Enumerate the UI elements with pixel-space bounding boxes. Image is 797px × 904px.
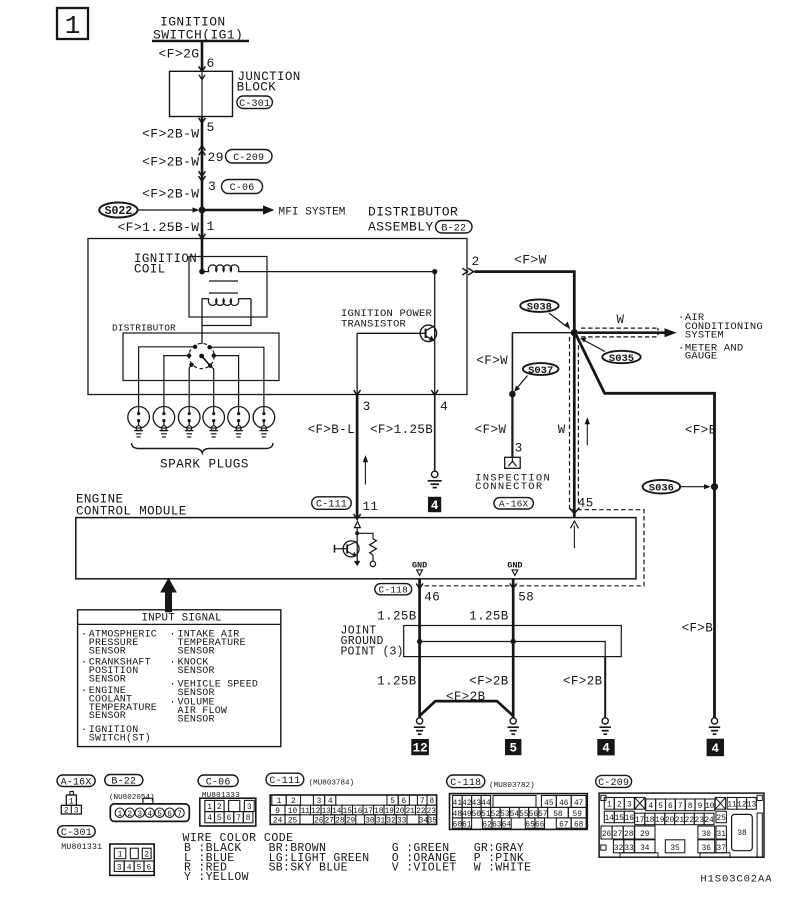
svg-text:38: 38 (737, 830, 747, 838)
svg-text:S037: S037 (528, 365, 553, 377)
ground 12 (417, 718, 423, 724)
svg-text:6: 6 (167, 811, 172, 819)
svg-text:(MU803784): (MU803784) (309, 780, 355, 788)
svg-text:SENSOR: SENSOR (89, 711, 126, 722)
coil primary winding (202, 271, 209, 273)
spark plug 2 with ground (153, 407, 175, 429)
GND triangle at pin 46 (417, 570, 423, 576)
wire rotor to spark plug 5 (214, 356, 239, 407)
svg-text:15: 15 (615, 815, 625, 823)
node coil primary input dot (199, 269, 205, 275)
inspection connector symbol (505, 457, 521, 468)
svg-text:3: 3 (247, 803, 252, 812)
pin 6 arrow into junction block (199, 66, 206, 71)
svg-text:58: 58 (518, 591, 534, 605)
svg-text:W :WHITE: W :WHITE (474, 861, 532, 874)
wire joint ground to ground 4 (604, 657, 606, 718)
svg-text:C-301: C-301 (239, 99, 270, 110)
spark plug 6 with ground (253, 407, 275, 429)
input signal box (78, 610, 281, 747)
node S036 junction dot (711, 483, 718, 490)
connector label C-301 (237, 96, 273, 109)
svg-text:1: 1 (118, 851, 123, 860)
svg-text:29: 29 (640, 831, 650, 839)
svg-text:26: 26 (314, 818, 324, 826)
svg-text:2: 2 (144, 851, 149, 860)
ECM internal arrow at pin 45 (573, 526, 575, 549)
connector label C-118 inline (375, 584, 412, 595)
svg-text:1.25B: 1.25B (377, 610, 417, 624)
splice S037 (523, 363, 559, 375)
connector label B-22 bottom (105, 775, 143, 786)
ground ref 5 black box (505, 739, 521, 755)
svg-text:28: 28 (624, 831, 634, 839)
svg-text:33: 33 (397, 818, 407, 826)
svg-text:42: 42 (462, 800, 472, 808)
svg-text:<F>2B: <F>2B (563, 675, 603, 689)
svg-text:7: 7 (177, 811, 182, 819)
svg-text:66: 66 (535, 821, 545, 829)
dashed W output box (581, 327, 658, 329)
wire S038 to inspection connector branch (512, 332, 574, 334)
wire pin 3 to ECM pin 11 (356, 395, 359, 518)
wire ECM pin 58 to ground 5 (512, 579, 515, 718)
spark plug 3 with ground (178, 407, 200, 429)
svg-text:26: 26 (602, 831, 612, 839)
connector label C-111 inline (312, 497, 352, 510)
svg-text:SB:SKY BLUE: SB:SKY BLUE (269, 861, 348, 874)
S038 pointer arrow (549, 313, 567, 327)
svg-text:63: 63 (492, 821, 502, 829)
svg-text:B-22: B-22 (441, 223, 466, 234)
connector label A-16X (57, 775, 95, 787)
connector label C-111 bottom (266, 773, 304, 786)
svg-text:33: 33 (624, 845, 634, 853)
svg-text:4: 4 (602, 742, 610, 756)
svg-text:30: 30 (365, 818, 375, 826)
svg-text:C-209: C-209 (598, 778, 629, 789)
svg-text:45: 45 (544, 800, 554, 808)
wire W to air conditioning arrow (578, 331, 666, 334)
svg-text:68: 68 (574, 821, 584, 829)
connector label C-06 bottom (198, 775, 238, 787)
wire S038 node to right branch diagonal (576, 334, 715, 718)
node S037 junction dot (509, 391, 516, 398)
svg-text:32: 32 (386, 818, 396, 826)
spark plug 1 with ground (128, 407, 150, 429)
connector C-209 pinout (599, 793, 764, 857)
wire coil secondary to rotor (201, 299, 203, 344)
ground 4 middle (602, 718, 608, 724)
ECM internal transistor Q2 (356, 533, 358, 561)
svg-text:5: 5 (157, 811, 162, 819)
svg-text:25: 25 (717, 815, 727, 823)
svg-text:29: 29 (208, 150, 224, 165)
spark plugs brace (132, 443, 274, 453)
svg-text:·: · (81, 686, 87, 697)
svg-text:GAUGE: GAUGE (685, 351, 718, 363)
svg-text:32: 32 (614, 845, 624, 853)
svg-text:5: 5 (509, 742, 517, 756)
S035 pointer arrow (585, 341, 606, 352)
wire pin1 to ignition coil (201, 239, 204, 272)
svg-text:25: 25 (288, 818, 298, 826)
svg-text:8: 8 (688, 803, 693, 811)
svg-text:47: 47 (574, 800, 584, 808)
svg-text:4: 4 (648, 803, 653, 811)
svg-text:ASSEMBLY: ASSEMBLY (368, 220, 434, 235)
svg-text:50: 50 (472, 811, 482, 819)
svg-text:3: 3 (74, 806, 79, 815)
svg-text:SENSOR: SENSOR (89, 646, 126, 657)
joint ground point box (404, 626, 622, 657)
svg-text:6: 6 (146, 863, 151, 872)
pin 45 connector chevron (569, 508, 579, 514)
svg-text:DISTRIBUTOR: DISTRIBUTOR (368, 205, 458, 220)
svg-text:<F>2B-W: <F>2B-W (142, 127, 199, 142)
svg-text:C-118: C-118 (378, 585, 408, 596)
connector label C-209 bottom (596, 775, 632, 787)
joint ground internal bus (420, 642, 606, 657)
pin 1 arrow into assembly (199, 234, 206, 239)
svg-text:2: 2 (64, 806, 69, 815)
svg-text:CONNECTOR: CONNECTOR (475, 481, 543, 493)
connector C-209 inline chevrons (199, 145, 206, 150)
svg-text:24: 24 (704, 817, 714, 825)
node joint ground dot 46 (417, 639, 422, 644)
svg-text:37: 37 (717, 845, 727, 853)
svg-text:11: 11 (363, 500, 379, 514)
wire rotor to spark plug 6 (210, 347, 264, 406)
svg-text:SENSOR: SENSOR (178, 646, 215, 657)
wire S037 to inspection connector (511, 394, 513, 457)
svg-text:S022: S022 (105, 205, 133, 218)
svg-text:6: 6 (668, 803, 673, 811)
connector label B-22 (436, 221, 473, 234)
wire ignition switch to junction block (201, 42, 204, 71)
svg-text:<F>2B: <F>2B (469, 675, 509, 689)
svg-text:60: 60 (453, 821, 463, 829)
svg-text:<F>W: <F>W (475, 423, 507, 437)
svg-text:4: 4 (440, 399, 448, 414)
svg-text:SENSOR: SENSOR (178, 714, 215, 725)
wire rotor to spark plug 2 (164, 356, 189, 407)
ground ref 4 middle black box (597, 739, 614, 755)
svg-text:62: 62 (483, 821, 493, 829)
ECM internal terminal circle (370, 561, 375, 566)
svg-text:<F>2B-W: <F>2B-W (142, 187, 199, 202)
svg-text:<F>B: <F>B (682, 622, 714, 636)
svg-text:·: · (170, 698, 176, 709)
svg-text:3: 3 (117, 863, 122, 872)
svg-text:·: · (678, 312, 685, 324)
svg-text:W: W (617, 313, 625, 327)
svg-text:7: 7 (236, 814, 241, 823)
svg-text:H1S03C02AA: H1S03C02AA (700, 874, 772, 886)
svg-text:1: 1 (607, 802, 612, 810)
svg-text:29: 29 (346, 818, 356, 826)
svg-text:18: 18 (645, 817, 655, 825)
S022 pointer arrow (138, 209, 195, 211)
svg-text:<F>W: <F>W (476, 354, 508, 368)
svg-text:61: 61 (462, 821, 472, 829)
distributor rotor circle (189, 343, 214, 368)
svg-text:1: 1 (207, 803, 212, 812)
S037 pointer arrow (517, 376, 528, 389)
page number box 1 (57, 8, 88, 39)
svg-text:(MU803782): (MU803782) (489, 782, 535, 790)
svg-text:·: · (678, 342, 685, 354)
wire pin2 to S038 node (475, 272, 575, 333)
connector C-06 pinout (200, 798, 256, 826)
wire 2/W down to ECM pin 45 (573, 333, 576, 518)
spark plug 5 with ground (228, 407, 250, 429)
dashed harness outline around ECM (419, 510, 645, 586)
svg-text:B-22: B-22 (111, 777, 136, 788)
svg-text:7: 7 (678, 803, 683, 811)
wire rotor to spark plug 3 (189, 365, 191, 407)
connector C-118 pinout (450, 794, 588, 830)
svg-text:4: 4 (127, 863, 132, 872)
svg-text:<F>1.25B: <F>1.25B (370, 423, 433, 437)
svg-text:11: 11 (301, 808, 311, 816)
svg-text:4: 4 (431, 499, 439, 513)
svg-text:GND: GND (412, 560, 427, 570)
S036 pointer arrow (680, 486, 706, 488)
svg-text:BLOCK: BLOCK (237, 81, 277, 95)
GND triangle at pin 58 (512, 570, 518, 576)
svg-text:C-06: C-06 (206, 777, 231, 788)
wire collector drop (434, 272, 436, 395)
ECM internal resistor R (357, 533, 373, 539)
svg-text:CONTROL MODULE: CONTROL MODULE (76, 505, 187, 519)
node joint ground dot 58 (511, 639, 516, 644)
svg-text:17: 17 (635, 817, 645, 825)
ground ref 4 right black box (707, 739, 724, 757)
svg-text:46: 46 (559, 800, 569, 808)
svg-text:31: 31 (717, 831, 727, 839)
ECM internal node dot (356, 528, 358, 534)
svg-text:S035: S035 (609, 353, 634, 365)
connector label C-06 inline (222, 180, 263, 194)
svg-text:30: 30 (702, 831, 712, 839)
svg-text:·: · (170, 679, 176, 690)
svg-text:19: 19 (655, 817, 665, 825)
connector label C-118 bottom (447, 775, 485, 788)
pin 11 connector chevron (354, 514, 361, 520)
svg-text:31: 31 (376, 818, 386, 826)
wire rotor to spark plug 1 (139, 347, 196, 407)
svg-text:·: · (170, 658, 176, 669)
wire ECM pin 46 to ground 12 (418, 579, 421, 718)
spark plug 4 with ground (203, 407, 225, 429)
current arrow up beside wire 45 (586, 422, 588, 446)
ground 5 (510, 718, 516, 724)
svg-text:21: 21 (675, 817, 685, 825)
ground ref 4 black box (428, 497, 441, 512)
svg-text:C-118: C-118 (450, 778, 481, 789)
svg-text:12: 12 (413, 742, 428, 756)
svg-text:C-301: C-301 (61, 828, 92, 839)
svg-text:·: · (81, 658, 87, 669)
svg-text:35: 35 (428, 818, 438, 826)
svg-text:<F>1.25B-W: <F>1.25B-W (117, 220, 199, 235)
ground ref 12 black box (411, 739, 429, 755)
svg-text:43: 43 (472, 800, 482, 808)
svg-text:TRANSISTOR: TRANSISTOR (341, 319, 407, 331)
svg-text:13: 13 (747, 802, 757, 810)
svg-text:2: 2 (217, 803, 222, 812)
svg-text:3: 3 (137, 811, 142, 819)
svg-text:A-16X: A-16X (61, 777, 92, 788)
wire rotor to spark plug 4 (210, 366, 214, 407)
svg-text:SPARK PLUGS: SPARK PLUGS (160, 457, 249, 472)
svg-text:1.25B: 1.25B (377, 675, 417, 689)
svg-text:16: 16 (625, 815, 635, 823)
splice S035 (602, 351, 640, 363)
svg-text:6: 6 (226, 814, 231, 823)
svg-text:14: 14 (605, 815, 615, 823)
svg-text:9: 9 (698, 803, 703, 811)
svg-text:22: 22 (685, 817, 695, 825)
rotor center dot (199, 354, 204, 359)
svg-text:3: 3 (627, 802, 632, 810)
svg-text:<F>W: <F>W (514, 253, 547, 268)
pin 5 arrow out of junction block (199, 118, 206, 123)
pin 58 connector chevron (510, 583, 517, 588)
svg-text:11: 11 (727, 802, 737, 810)
wire pin 4 to ground (434, 395, 436, 472)
svg-text:SENSOR: SENSOR (178, 666, 215, 677)
svg-text:24: 24 (273, 818, 283, 826)
svg-text:C-111: C-111 (316, 500, 347, 511)
node S022 junction dot (199, 207, 206, 214)
svg-text:1: 1 (117, 811, 122, 819)
svg-text:20: 20 (665, 817, 675, 825)
svg-text:SWITCH(ST): SWITCH(ST) (89, 732, 151, 744)
rotor arm (202, 356, 211, 366)
svg-text:6: 6 (207, 56, 215, 71)
svg-text:Y :YELLOW: Y :YELLOW (184, 871, 249, 884)
dashed harness outline left pair (569, 337, 571, 509)
svg-text:·: · (81, 725, 87, 736)
svg-text:<F>B-L: <F>B-L (308, 423, 355, 437)
svg-text:65: 65 (525, 821, 535, 829)
ground for pin 4 wire (432, 471, 438, 477)
svg-text:8: 8 (246, 814, 251, 823)
svg-text:SYSTEM: SYSTEM (685, 330, 724, 342)
svg-text:4: 4 (207, 814, 212, 823)
svg-text:S036: S036 (649, 482, 674, 494)
svg-text:<F>2B-W: <F>2B-W (142, 155, 199, 170)
node S038 junction dot (571, 329, 578, 336)
pin 2 chevrons out of assembly (462, 268, 467, 275)
wire ground 12 to ground 5 jog (420, 701, 514, 716)
splice S036 (643, 480, 681, 494)
svg-text:MFI SYSTEM: MFI SYSTEM (279, 207, 346, 219)
svg-text:3: 3 (208, 179, 216, 194)
svg-text:1: 1 (65, 11, 81, 41)
svg-text:1: 1 (207, 219, 215, 234)
svg-text:5: 5 (207, 120, 215, 135)
svg-text:<F>B: <F>B (685, 424, 717, 438)
connector C-301 pinout (110, 844, 154, 875)
svg-text:5: 5 (658, 803, 663, 811)
wire coil primary to transistor collector node (238, 271, 435, 273)
current arrow up beside wire 3 (364, 460, 366, 485)
svg-text:5: 5 (217, 814, 222, 823)
svg-text:27: 27 (613, 831, 623, 839)
wire through junction block (201, 71, 203, 116)
coil secondary winding (208, 299, 238, 306)
svg-text:44: 44 (481, 800, 491, 808)
coil iron core (209, 280, 238, 282)
svg-text:10: 10 (705, 803, 715, 811)
connector A-16X pinout (70, 792, 73, 796)
svg-text:2: 2 (617, 802, 622, 810)
svg-text:W: W (558, 423, 566, 437)
svg-text:36: 36 (702, 845, 712, 853)
connector C-111 pinout (270, 795, 436, 824)
junction block C-301 box (170, 71, 233, 116)
svg-text:45: 45 (578, 497, 594, 511)
svg-text:V :VIOLET: V :VIOLET (392, 861, 457, 874)
wire MFI SYSTEM branch (202, 209, 264, 212)
svg-text:C-111: C-111 (269, 776, 300, 787)
svg-text:C-06: C-06 (230, 183, 255, 194)
splice S022 (99, 203, 137, 218)
engine control module box (76, 518, 636, 579)
svg-text:46: 46 (424, 591, 440, 605)
rotor contact dots (193, 345, 197, 349)
connector C-06 inline chevrons (199, 176, 206, 181)
wire coil secondary right jog (202, 299, 251, 326)
svg-text:3: 3 (515, 442, 523, 456)
svg-text:<F>2G: <F>2G (158, 47, 199, 62)
svg-text:4: 4 (147, 811, 152, 819)
pin 3 arrow out of assembly (354, 390, 361, 395)
svg-text:27: 27 (325, 818, 335, 826)
distributor assembly box B-22 (88, 239, 467, 395)
connector label C-301 bottom (58, 826, 96, 838)
svg-text:5: 5 (137, 863, 142, 872)
svg-text:64: 64 (502, 821, 512, 829)
svg-text:COIL: COIL (134, 263, 166, 277)
svg-text:41: 41 (453, 800, 463, 808)
ECM input triangle at pin 11 (355, 521, 361, 527)
connector B-22 pinout (143, 798, 153, 804)
svg-text:SENSOR: SENSOR (89, 674, 126, 685)
svg-text:34: 34 (640, 845, 650, 853)
svg-text:A-16X: A-16X (499, 499, 529, 510)
svg-text:·: · (170, 630, 176, 641)
ground 4 right (711, 718, 717, 724)
svg-text:DISTRIBUTOR: DISTRIBUTOR (112, 323, 176, 334)
svg-text:GND: GND (507, 560, 522, 570)
svg-text:1.25B: 1.25B (469, 610, 509, 624)
node coil to transistor dot (432, 269, 437, 274)
svg-text:POINT (3): POINT (3) (341, 646, 404, 659)
svg-text:3: 3 (363, 399, 371, 414)
svg-text:35: 35 (670, 845, 680, 853)
svg-text:INPUT SIGNAL: INPUT SIGNAL (142, 613, 222, 625)
svg-text:67: 67 (559, 821, 569, 829)
svg-text:C-209: C-209 (233, 153, 264, 164)
pin 4 arrow out of assembly (431, 390, 438, 395)
connector label A-16X inline (494, 498, 534, 509)
wire S022 node to distributor assembly (201, 210, 204, 239)
wire transistor base to pin 3 (357, 332, 426, 334)
